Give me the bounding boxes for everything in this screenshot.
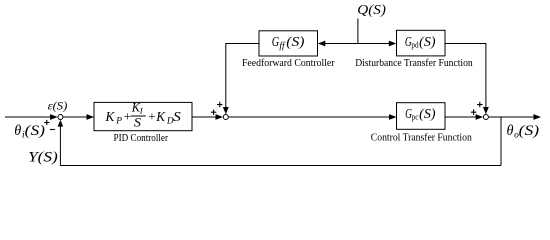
svg-text:θ: θ [14, 123, 21, 139]
svg-text:ε(S): ε(S) [48, 98, 68, 112]
svg-text:G: G [272, 34, 280, 49]
label Control Transfer Function [371, 132, 472, 144]
wire feedback up into S1 with up arrowhead [58, 120, 64, 166]
svg-text:Feedforward Controller: Feedforward Controller [242, 57, 335, 69]
label epsilon(S) error signal [48, 98, 68, 112]
label PID Controller [114, 132, 169, 144]
svg-text:(S): (S) [419, 106, 435, 121]
svg-text:PID Controller: PID Controller [114, 132, 169, 144]
svg-text:Y(S): Y(S) [28, 149, 58, 165]
label Y(S) feedback signal [28, 149, 58, 165]
wire PID output into summing junction S2 with right arrowhead [192, 114, 223, 120]
label plus sign at S3 horizontal input [471, 110, 476, 115]
wire branch to feedforward controller with left arrowhead [318, 41, 358, 47]
svg-text:P: P [115, 117, 122, 127]
label plus sign at S1 [44, 120, 49, 125]
summing junction S1 [58, 115, 63, 120]
block G_ff feedforward controller box [259, 31, 318, 56]
label plus sign at S3 vertical input [477, 102, 482, 107]
label theta_o(S) output [507, 123, 540, 141]
summing junction S3 [483, 115, 488, 120]
label Q(S) disturbance input [357, 2, 386, 18]
wire Q(S) vertical drop to branch node [357, 19, 359, 44]
wire G_ff output left then down into summing junction S2 with down arrowhead [223, 44, 259, 115]
label plus sign at S2 vertical input [217, 102, 222, 107]
wire feedback bottom run [60, 165, 501, 167]
svg-text:(S): (S) [419, 34, 435, 49]
label plus sign at S2 horizontal input [211, 110, 216, 115]
block G_pc control transfer function box [397, 103, 446, 130]
wire G_pc output into summing junction S3 with right arrowhead [445, 114, 483, 120]
wire G_pd output right then down into summing junction S3 with down arrowhead [445, 44, 489, 115]
svg-text:Disturbance Transfer Function: Disturbance Transfer Function [355, 57, 473, 69]
svg-text:(S): (S) [286, 34, 304, 49]
wire S2 to G_pc with arrowhead into box [229, 114, 397, 120]
label minus sign at S1 [50, 129, 55, 131]
svg-text:S: S [134, 116, 141, 130]
wire reference input into summing junction S1 with right arrowhead [5, 114, 58, 120]
svg-text:K: K [105, 109, 116, 124]
svg-text:θ: θ [507, 123, 514, 139]
svg-text:(S): (S) [25, 123, 46, 139]
block PID controller box Kp + Ki/S + Kd S [94, 100, 192, 130]
svg-text:Control Transfer Function: Control Transfer Function [371, 132, 472, 144]
wire branch to disturbance block with right arrowhead [358, 41, 396, 47]
svg-text:+: + [124, 109, 131, 124]
label Disturbance Transfer Function [355, 57, 473, 69]
svg-text:Q(S): Q(S) [357, 2, 386, 18]
svg-text:pc: pc [412, 112, 419, 122]
svg-text:S: S [173, 109, 181, 124]
svg-text:K: K [155, 109, 166, 124]
summing junction S2 [223, 115, 228, 120]
svg-text:(S): (S) [519, 123, 540, 139]
wire output to theta_o with right arrowhead at edge [489, 114, 541, 120]
svg-text:+: + [148, 109, 155, 124]
label Feedforward Controller [242, 57, 335, 69]
wire feedback tap down from output line [500, 117, 502, 166]
wire S1 to PID controller with arrowhead into box [63, 114, 94, 120]
svg-text:pd: pd [411, 40, 419, 50]
block G_pd disturbance transfer function box [397, 30, 446, 56]
label theta_i(S) reference input [14, 123, 45, 141]
